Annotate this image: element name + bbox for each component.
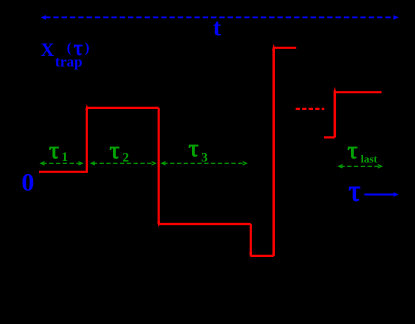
- svg-text:τ: τ: [74, 35, 83, 60]
- step segment level 1: [87, 107, 159, 109]
- svg-text:2: 2: [123, 150, 130, 165]
- svg-text:last: last: [361, 153, 378, 165]
- jump down 2: [158, 108, 160, 224]
- jump up 1: [86, 108, 88, 172]
- jump down 3: [250, 224, 252, 256]
- tau_last interval arrow: [339, 165, 382, 168]
- svg-text:t: t: [213, 16, 221, 42]
- step segment level 2: [159, 223, 251, 225]
- svg-text:3: 3: [201, 150, 208, 165]
- svg-text:): ): [85, 41, 90, 56]
- label X_trap(tau): [41, 35, 90, 71]
- label tau3: [189, 136, 209, 165]
- svg-text:τ: τ: [189, 136, 199, 163]
- step segment level 5: [324, 136, 335, 138]
- step segment level 0: [39, 171, 88, 173]
- tau arrow (blue solid): [364, 192, 398, 197]
- svg-text:τ: τ: [49, 138, 59, 165]
- svg-text:1: 1: [62, 149, 69, 164]
- step segment last level: [335, 91, 382, 93]
- arrowhead jump1 up: [85, 104, 88, 110]
- axis arrow t (blue dashed double arrow): [41, 15, 399, 20]
- big jump up 4: [272, 48, 275, 256]
- svg-text:X: X: [41, 40, 55, 61]
- last jump up: [334, 92, 337, 137]
- jump arrowheads (red): [85, 44, 336, 259]
- step segment level 3: [251, 255, 274, 257]
- svg-text:(: (: [67, 41, 72, 56]
- svg-text:τ: τ: [349, 175, 361, 208]
- svg-text:0: 0: [22, 168, 35, 197]
- svg-text:τ: τ: [348, 138, 358, 165]
- label tau2: [110, 138, 130, 165]
- arrowhead jump4 up: [272, 44, 275, 50]
- label tau_last: [348, 138, 378, 166]
- tau1 interval arrow (green dashed): [41, 162, 82, 165]
- tau3 interval arrow: [162, 162, 247, 165]
- tau2 interval arrow: [91, 162, 155, 165]
- arrowhead jump3 down: [249, 252, 252, 258]
- omitted part (red dashed): [296, 108, 325, 110]
- arrowhead last jump up: [333, 87, 336, 93]
- arrowhead jump2 down: [157, 221, 160, 227]
- label tau1: [49, 138, 68, 165]
- red trajectory of x_trap: [39, 48, 382, 256]
- step segment level 4: [274, 47, 297, 49]
- svg-text:τ: τ: [110, 138, 120, 165]
